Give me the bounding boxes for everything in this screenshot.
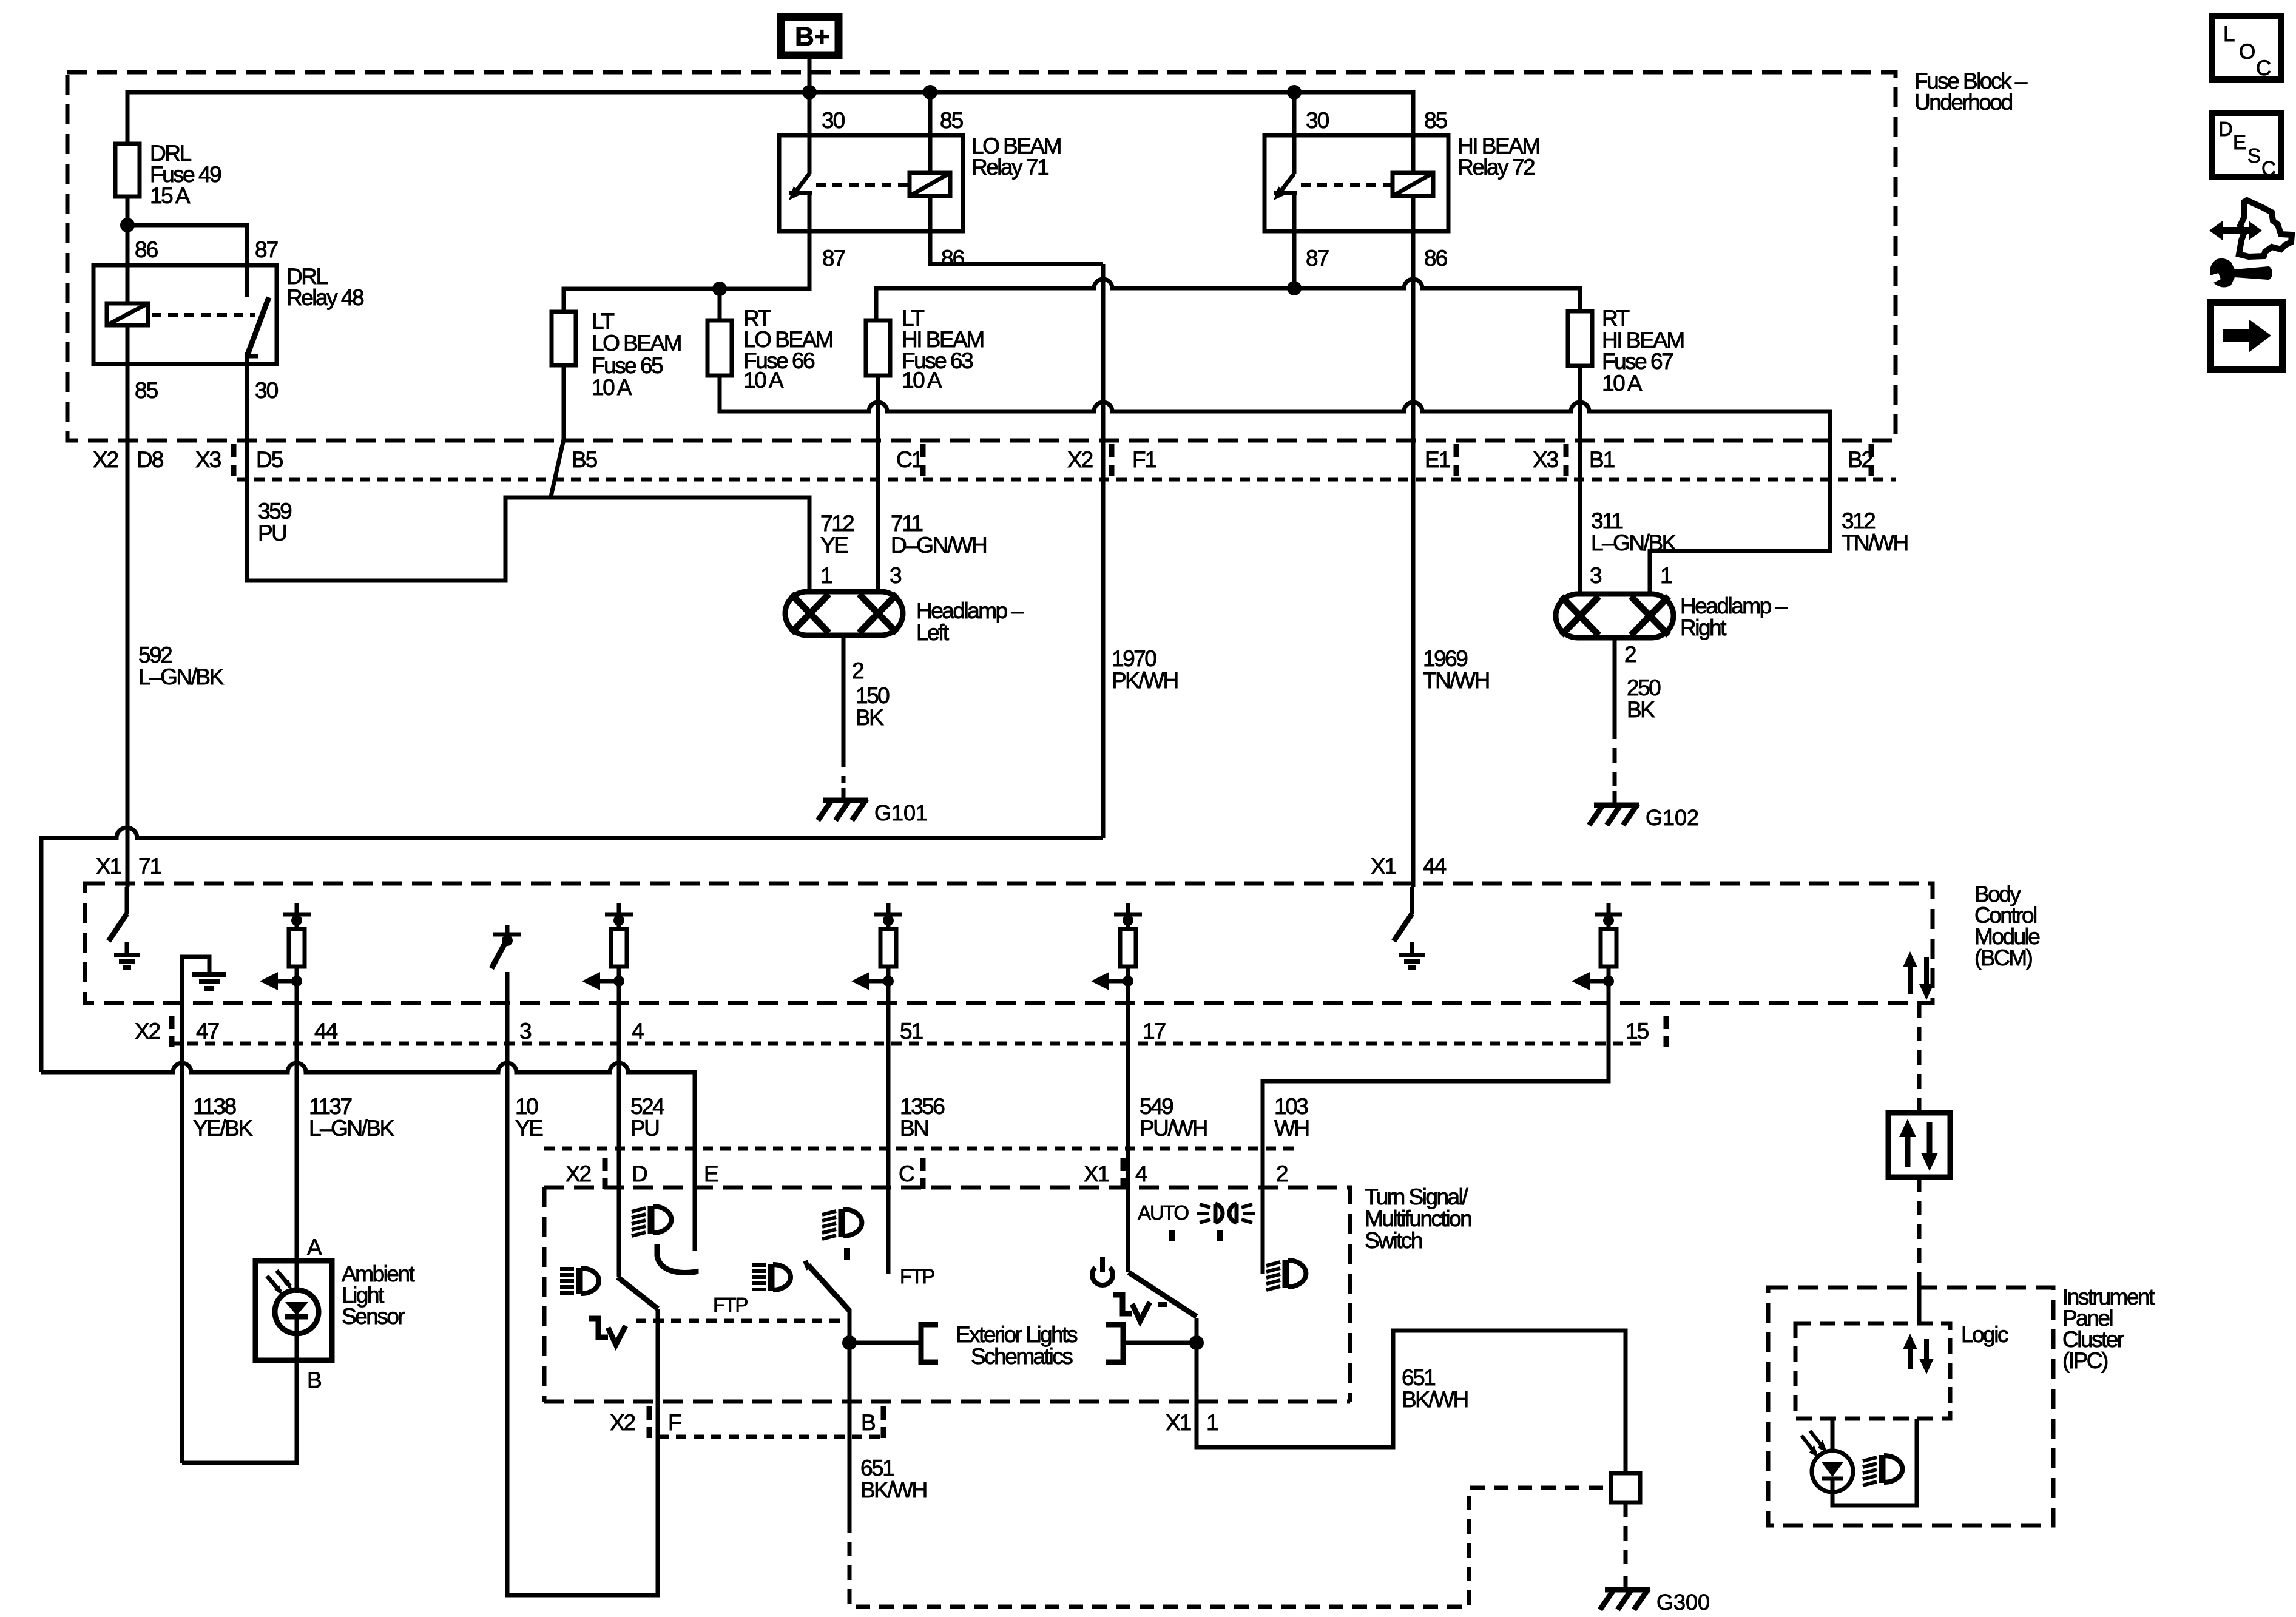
node relay71 85 feed (923, 85, 937, 100)
svg-text:150: 150 (856, 683, 890, 708)
svg-text:B5: B5 (572, 447, 598, 472)
switch blade X1-4 to X1-1 (1129, 1272, 1197, 1317)
svg-text:X2: X2 (93, 447, 118, 472)
ground symbol (BCM 71) (114, 955, 140, 968)
serial data connector box (1888, 1113, 1950, 1177)
svg-text:1: 1 (1206, 1410, 1218, 1435)
svg-text:1: 1 (1660, 563, 1672, 588)
wire fuse65 out B5 with jog (551, 365, 564, 496)
svg-text:Headlamp –: Headlamp – (1680, 593, 1788, 618)
headlamp icon (103 WH position) (1266, 1260, 1306, 1290)
svg-text:BN: BN (900, 1116, 928, 1141)
svg-text:Multifunction: Multifunction (1365, 1206, 1471, 1231)
svg-text:L–GN/BK: L–GN/BK (138, 664, 225, 689)
BCM pin47 ground hook (182, 957, 209, 1003)
svg-text:Sensor: Sensor (342, 1304, 405, 1329)
icon DESC box (2212, 113, 2281, 177)
svg-text:L: L (2223, 22, 2235, 46)
flash-to-pass spring symbol (right) (1113, 1295, 1132, 1314)
icon arrow box (2210, 302, 2283, 370)
svg-text:30: 30 (1306, 108, 1329, 133)
svg-text:B+: B+ (795, 22, 829, 52)
svg-text:Relay 71: Relay 71 (971, 155, 1048, 180)
svg-text:10 A: 10 A (902, 368, 942, 393)
node relay72 30 feed (1287, 85, 1302, 100)
bulb high beam right (1561, 596, 1599, 635)
wire B+ to bus (808, 59, 812, 92)
relay K71 actuator dashes (816, 183, 910, 187)
svg-text:B: B (307, 1368, 321, 1393)
svg-text:Switch: Switch (1365, 1228, 1422, 1253)
ground symbol (BCM 44) (1399, 955, 1425, 968)
wire 1137 L-GN/BK pin44 down (295, 981, 299, 1261)
svg-text:Turn Signal/: Turn Signal/ (1365, 1184, 1468, 1209)
BCM pin3 switch (491, 925, 521, 1003)
wire 524 PU pin4 down (617, 981, 621, 1277)
svg-text:X3: X3 (195, 447, 221, 472)
svg-text:1969: 1969 (1423, 646, 1467, 671)
svg-text:BK/WH: BK/WH (1402, 1387, 1468, 1412)
wire net X1-71 to F1: horizontal y1381 with hop at 209 (41, 828, 1103, 1072)
relay K48 coil (107, 303, 148, 325)
ground G102 (1589, 804, 1639, 825)
flash-to-pass spring symbol (left) (589, 1318, 608, 1337)
relay K72 switch pin30 (1292, 92, 1297, 174)
wire relay72 86 to E1 (1969 TN/WH) (1411, 231, 1416, 887)
BCM X1-71 switch to ground (125, 887, 129, 914)
position tick below icon (844, 1248, 850, 1260)
svg-text:2: 2 (1624, 642, 1636, 667)
svg-text:X1: X1 (96, 854, 121, 879)
B+ power symbol (781, 17, 839, 55)
svg-text:2: 2 (852, 658, 863, 683)
BCM pin17 pull-up resistor (1091, 903, 1142, 1003)
svg-text:C1: C1 (896, 447, 923, 472)
relay K48 DRL Relay box (93, 265, 277, 364)
svg-text:1: 1 (820, 563, 832, 588)
svg-text:G300: G300 (1656, 1590, 1710, 1615)
svg-text:D–GN/WH: D–GN/WH (891, 533, 986, 558)
svg-text:549: 549 (1140, 1094, 1173, 1119)
svg-text:Exterior Lights: Exterior Lights (956, 1322, 1078, 1347)
ground G300 (1600, 1588, 1650, 1610)
dashed 651 to G300 (1624, 1502, 1628, 1573)
wire net E: horizontal y1767 with hops, corner down at 1145 (41, 1063, 695, 1251)
connector X3 separator (231, 444, 237, 476)
svg-text:A: A (307, 1235, 322, 1260)
connector row fine dashed line (fuse block bottom) (237, 478, 1896, 482)
svg-text:Relay 72: Relay 72 (1457, 155, 1535, 180)
svg-text:AUTO: AUTO (1138, 1201, 1189, 1224)
fuse F63 LT HI BEAM (866, 320, 890, 376)
wire X1-1 651 BK/WH solid (1197, 1318, 1626, 1473)
svg-text:PK/WH: PK/WH (1112, 668, 1178, 693)
svg-text:LO BEAM: LO BEAM (592, 331, 681, 356)
relay K71 coil (910, 173, 950, 196)
power symbol (1092, 1257, 1113, 1285)
node exterior lights right (1189, 1335, 1204, 1350)
ground symbol (BCM 47) (192, 974, 226, 988)
auto headlamps icon (1215, 1204, 1237, 1223)
svg-text:D8: D8 (137, 447, 163, 472)
svg-text:X1: X1 (1371, 854, 1396, 879)
svg-text:F: F (668, 1410, 681, 1435)
E wiper curve (657, 1244, 696, 1274)
svg-text:1356: 1356 (900, 1094, 944, 1119)
svg-text:10: 10 (515, 1094, 538, 1119)
svg-text:FTP: FTP (713, 1294, 748, 1316)
wire 1970 PK/WH vertical (1101, 264, 1106, 838)
svg-text:10 A: 10 A (1602, 371, 1643, 396)
svg-text:Relay 48: Relay 48 (286, 285, 363, 310)
wire fuse63 out 711 D-GN/WH (876, 376, 880, 592)
wire 1356 BN pin51 down (886, 981, 891, 1274)
svg-text:S: S (2247, 144, 2261, 167)
ambient light sensor box (255, 1261, 332, 1360)
icon LOC box (2212, 16, 2281, 79)
wire to left bracket (849, 1341, 920, 1345)
svg-text:86: 86 (1424, 246, 1447, 271)
node fuse49 out (120, 218, 135, 232)
svg-text:87: 87 (822, 246, 845, 271)
svg-text:L–GN/BK: L–GN/BK (1591, 530, 1677, 555)
svg-text:E: E (704, 1161, 718, 1186)
wire branch to pin 87 (127, 225, 247, 265)
svg-text:51: 51 (900, 1019, 923, 1044)
headlamp left stadium (785, 592, 903, 635)
pin 2 left headlamp / 150 BK (842, 635, 846, 752)
svg-text:PU/WH: PU/WH (1140, 1116, 1207, 1141)
svg-text:30: 30 (255, 378, 279, 403)
svg-text:WH: WH (1274, 1116, 1309, 1141)
svg-text:1138: 1138 (193, 1094, 235, 1119)
svg-text:Fuse 65: Fuse 65 (592, 353, 663, 378)
splice square (1611, 1473, 1640, 1502)
svg-text:312: 312 (1842, 508, 1875, 533)
svg-text:Underhood: Underhood (1914, 90, 2013, 115)
wire from right bracket (1123, 1341, 1197, 1345)
relay K48 switch (245, 265, 249, 297)
exterior lights schematics right bracket (1106, 1325, 1123, 1362)
BCM pin51 pull-up resistor (851, 903, 902, 1003)
relay K72 HI BEAM box (1264, 135, 1448, 231)
headlamp right stadium (1556, 594, 1673, 638)
svg-text:PU: PU (630, 1116, 658, 1141)
svg-text:L–GN/BK: L–GN/BK (309, 1116, 395, 1141)
svg-text:X2: X2 (566, 1161, 591, 1186)
svg-text:FTP: FTP (900, 1265, 934, 1288)
svg-text:YE: YE (515, 1116, 543, 1141)
svg-text:1970: 1970 (1112, 646, 1156, 671)
IPC headlamp icon (1863, 1455, 1902, 1485)
svg-text:(IPC): (IPC) (2062, 1348, 2108, 1373)
svg-text:10 A: 10 A (743, 368, 784, 393)
node exterior lights left (842, 1335, 857, 1350)
svg-text:4: 4 (632, 1019, 644, 1044)
svg-text:15: 15 (1626, 1019, 1649, 1044)
pin 2 right headlamp / 250 BK (1613, 638, 1617, 724)
svg-text:PU: PU (258, 521, 286, 545)
relay K72 coil (1393, 173, 1433, 196)
IPC indicator loop (1831, 1419, 1835, 1450)
switch blade D to F (618, 1277, 658, 1309)
svg-text:(BCM): (BCM) (1974, 945, 2033, 970)
svg-text:X2: X2 (1067, 447, 1093, 472)
wire D5 to headlamp low beam (relay48 30 out) (247, 364, 809, 592)
svg-text:D5: D5 (256, 447, 283, 472)
svg-text:47: 47 (196, 1019, 219, 1044)
relay K71 switch pin30 (808, 92, 812, 174)
svg-text:311: 311 (1591, 508, 1622, 533)
svg-text:711: 711 (891, 511, 922, 536)
logic serial arrows (1910, 1339, 1926, 1369)
wire fuse66 out to RT headlamp (312 TN/WH) hops at 1447 1818 2329 2604 (720, 376, 1830, 594)
wire 1138 YE/BK pin47 down (180, 957, 184, 1463)
wire fuse49 to relay48 (126, 197, 130, 265)
svg-text:651: 651 (1402, 1365, 1435, 1390)
svg-text:359: 359 (258, 499, 291, 524)
svg-text:BK: BK (856, 705, 884, 730)
switch connector fine dashed row (top) (544, 1147, 1298, 1151)
svg-text:592: 592 (138, 643, 172, 667)
svg-text:E: E (2233, 131, 2246, 154)
BCM X2 connector fine dashed row (170, 1042, 1647, 1046)
node fuse66 feed (712, 282, 727, 296)
headlamp icon left of D blade (560, 1268, 599, 1294)
svg-text:Fuse 67: Fuse 67 (1602, 349, 1673, 374)
sensor loop bottom (182, 1360, 297, 1463)
relay K71 LO BEAM box (779, 135, 963, 231)
svg-text:3: 3 (1590, 563, 1601, 588)
svg-text:10 A: 10 A (592, 375, 632, 400)
headlamp icon left of FTP blade (752, 1264, 791, 1291)
bulb low beam right (1631, 596, 1669, 635)
svg-text:Logic: Logic (1961, 1322, 2008, 1347)
fuse F65 LT LO BEAM (552, 312, 576, 365)
bulb high beam left (859, 594, 897, 633)
svg-text:4: 4 (1135, 1161, 1147, 1186)
headlamp icon above E curve (632, 1206, 671, 1236)
svg-text:87: 87 (255, 237, 278, 262)
svg-text:C: C (2256, 56, 2271, 80)
svg-text:X1: X1 (1084, 1161, 1109, 1186)
svg-text:85: 85 (940, 108, 964, 133)
exterior lights schematics left bracket (921, 1325, 938, 1362)
svg-text:B: B (861, 1410, 875, 1435)
wire relay71 86 to F1 (930, 231, 1103, 264)
relay K72 actuator dashes (1301, 183, 1393, 187)
svg-text:Schematics: Schematics (971, 1344, 1073, 1369)
svg-text:LT: LT (592, 309, 614, 334)
svg-text:524: 524 (630, 1094, 664, 1119)
svg-text:F1: F1 (1132, 447, 1156, 472)
svg-text:TN/WH: TN/WH (1423, 668, 1489, 693)
svg-text:D: D (2218, 118, 2233, 140)
svg-text:RT: RT (1602, 306, 1630, 331)
svg-text:1137: 1137 (309, 1094, 351, 1119)
svg-text:85: 85 (135, 378, 158, 403)
wire 592 L-GN/BK relay48 85 down to BCM (126, 364, 130, 887)
wire B down from FTP blade (848, 1309, 852, 1518)
svg-text:BK: BK (1627, 697, 1655, 722)
svg-text:YE: YE (820, 533, 848, 558)
svg-text:BK/WH: BK/WH (860, 1477, 927, 1502)
wire 103 WH pin15 down and over (1263, 981, 1609, 1274)
BCM pin44 pull-up resistor (260, 903, 311, 1003)
svg-text:15 A: 15 A (150, 183, 191, 208)
ground G101 (818, 799, 868, 820)
fuse F67 RT HI BEAM (1568, 311, 1592, 366)
svg-text:TN/WH: TN/WH (1842, 530, 1908, 555)
serial data dashed from BCM (1917, 1003, 1922, 1113)
sensor photodiode (295, 1261, 299, 1293)
wire 549 PU/WH pin17 down (1126, 981, 1130, 1272)
svg-text:X1: X1 (1166, 1410, 1191, 1435)
svg-text:86: 86 (135, 237, 158, 262)
wire 10 YE pin3 down and to F (507, 972, 658, 1595)
svg-text:Headlamp –: Headlamp – (916, 598, 1024, 623)
fuse block underhood dashed box (67, 72, 1896, 441)
switch bottom fine dashed row (658, 1435, 883, 1439)
svg-text:X2: X2 (610, 1410, 635, 1435)
switch position ticks (1169, 1230, 1175, 1241)
IPC dashed box (1768, 1288, 2053, 1525)
svg-text:30: 30 (822, 108, 845, 133)
turn signal multifunction switch dashed box (544, 1187, 1350, 1402)
svg-text:B1: B1 (1589, 447, 1615, 472)
FTP dashed link row (636, 1319, 845, 1323)
svg-text:103: 103 (1274, 1094, 1308, 1119)
svg-text:Left: Left (916, 620, 950, 645)
FTP switch blade to B (805, 1261, 809, 1269)
svg-text:71: 71 (138, 854, 161, 879)
bulb low beam left (791, 594, 829, 633)
wire relay72 87 to fuses 63 67 (hops at 1818 and 2329) (1292, 231, 1297, 288)
wire fuse67 out 311 L-GN/BK (1578, 366, 1582, 594)
svg-text:87: 87 (1306, 246, 1329, 271)
svg-text:E1: E1 (1425, 447, 1450, 472)
svg-text:3: 3 (890, 563, 901, 588)
svg-text:712: 712 (820, 511, 854, 536)
headlamp icon left of C contact (822, 1209, 862, 1239)
svg-text:X2: X2 (135, 1019, 160, 1044)
BCM pin15 pull-up resistor (1572, 903, 1622, 1003)
svg-text:44: 44 (314, 1019, 338, 1044)
BCM serial data arrows (1910, 957, 1926, 994)
svg-text:85: 85 (1424, 108, 1448, 133)
fuse F66 RT LO BEAM (707, 320, 732, 376)
serial data solid into IPC (1917, 1288, 1922, 1323)
svg-text:X3: X3 (1533, 447, 1558, 472)
wire relay71 87 to fuses 65 66 (564, 231, 809, 312)
main B+ bus wire (127, 92, 1413, 173)
BCM dashed box (85, 883, 1933, 1003)
svg-text:D: D (632, 1161, 647, 1186)
svg-text:86: 86 (941, 246, 964, 271)
relay K48 actuator dashes (152, 313, 255, 317)
svg-text:C: C (2261, 157, 2276, 180)
svg-text:C: C (899, 1161, 914, 1186)
icon vehicle with arrow and wrench (2209, 200, 2292, 287)
svg-text:YE/BK: YE/BK (193, 1116, 253, 1141)
serial data dashed to IPC (1917, 1177, 1922, 1288)
fuse F49 DRL (115, 144, 140, 197)
svg-text:G102: G102 (1646, 805, 1699, 830)
svg-text:Right: Right (1680, 615, 1727, 640)
svg-text:3: 3 (519, 1019, 531, 1044)
svg-text:250: 250 (1627, 675, 1661, 700)
IPC logic dashed box (1795, 1323, 1950, 1419)
svg-text:2: 2 (1276, 1161, 1288, 1186)
svg-text:44: 44 (1423, 854, 1447, 879)
svg-text:17: 17 (1143, 1019, 1166, 1044)
BCM pin4 pull-up resistor (582, 903, 633, 1003)
svg-text:G101: G101 (874, 800, 928, 825)
BCM X1-44 switch to ground (1410, 887, 1414, 914)
node B+ junction (802, 85, 817, 100)
svg-text:O: O (2239, 40, 2255, 64)
svg-text:651: 651 (860, 1456, 894, 1480)
